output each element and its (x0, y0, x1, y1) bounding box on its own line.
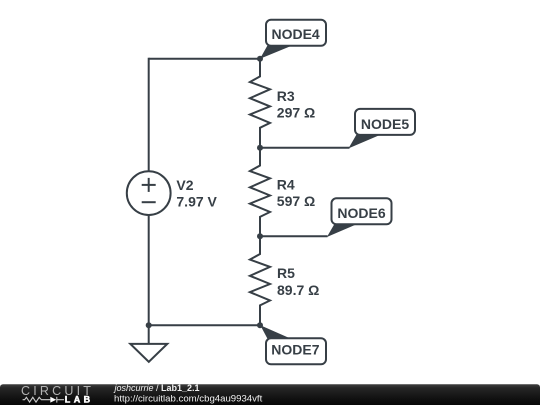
svg-text:R3: R3 (277, 88, 295, 104)
svg-text:597 Ω: 597 Ω (277, 193, 315, 209)
svg-text:NODE4: NODE4 (271, 26, 319, 42)
svg-text:297 Ω: 297 Ω (277, 105, 315, 121)
svg-text:NODE7: NODE7 (271, 341, 319, 357)
svg-text:joshcurrie / Lab1_2.1: joshcurrie / Lab1_2.1 (114, 383, 200, 393)
svg-text:89.7 Ω: 89.7 Ω (277, 282, 319, 298)
svg-text:NODE6: NODE6 (337, 205, 385, 221)
svg-text:R4: R4 (277, 177, 295, 193)
svg-text:NODE5: NODE5 (361, 116, 409, 132)
svg-text:7.97 V: 7.97 V (176, 193, 217, 209)
svg-text:R5: R5 (277, 265, 295, 281)
svg-text:http://circuitlab.com/cbg4au99: http://circuitlab.com/cbg4au9934vft (114, 393, 263, 404)
svg-text:LAB: LAB (65, 394, 94, 404)
svg-text:V2: V2 (176, 177, 193, 193)
